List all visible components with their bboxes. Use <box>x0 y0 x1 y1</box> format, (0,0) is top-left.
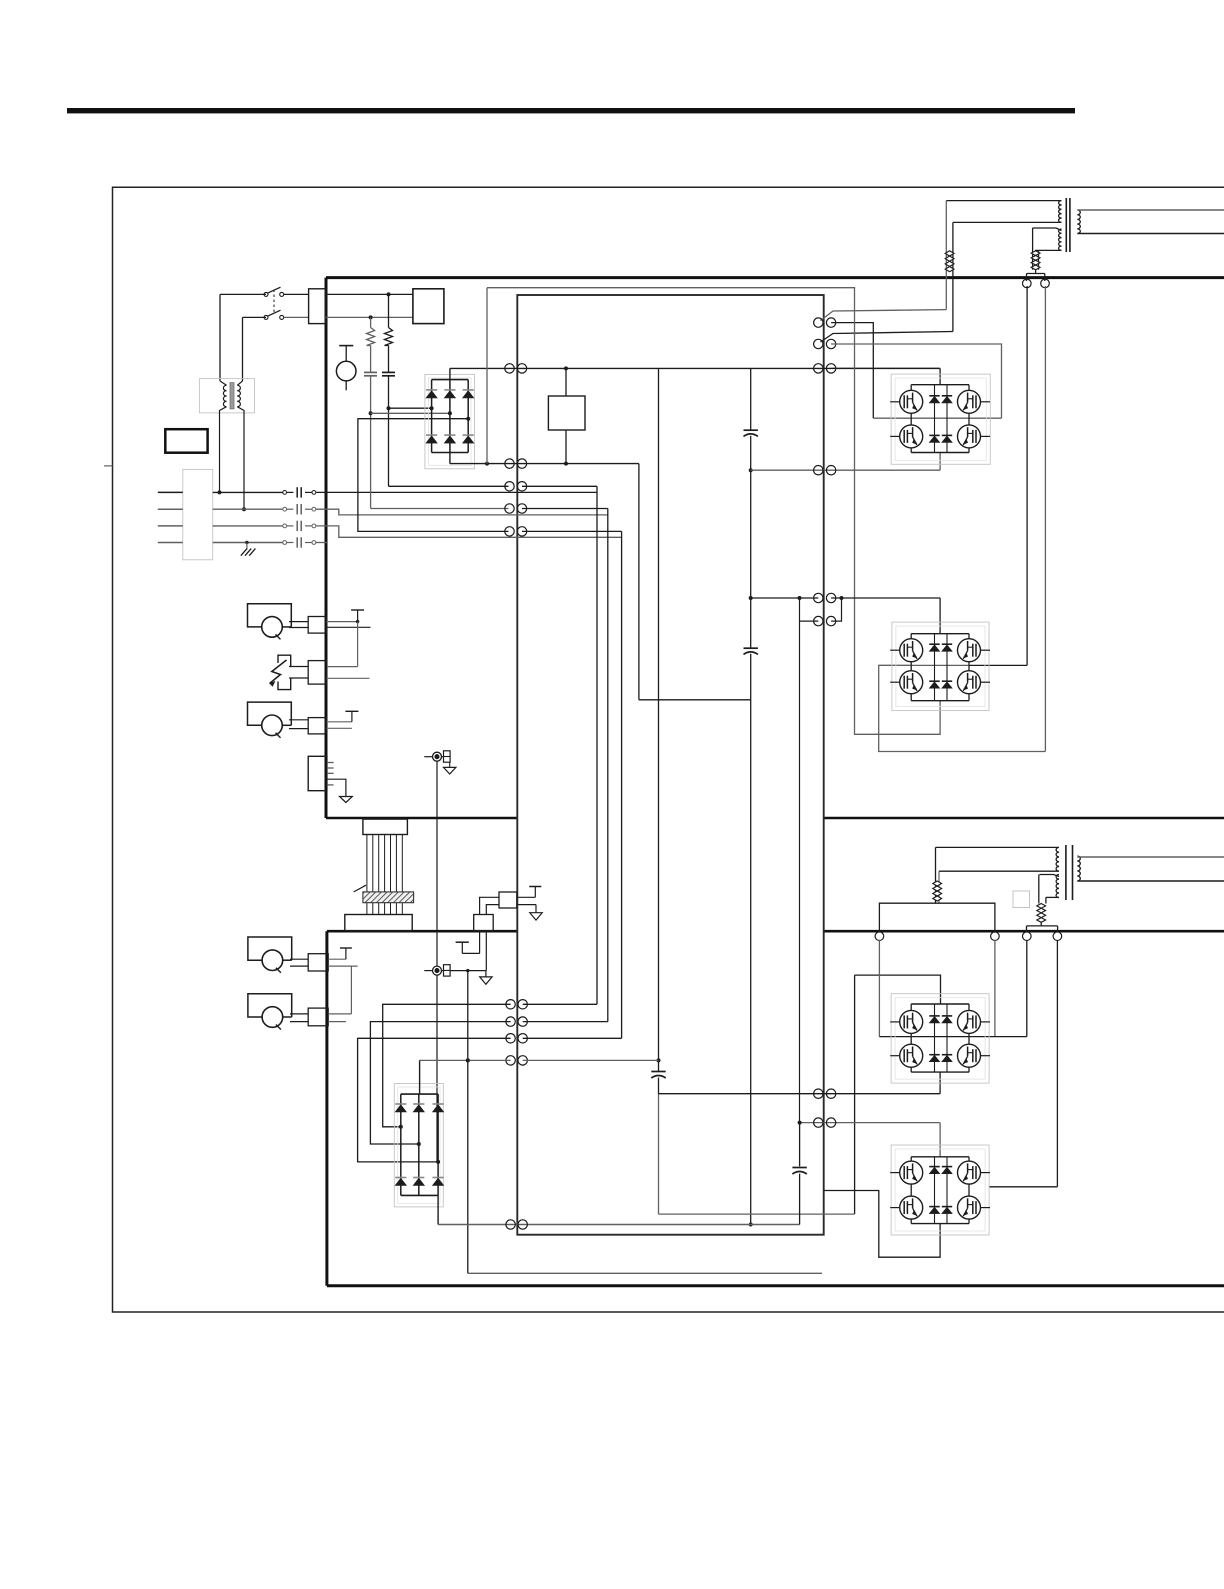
wire B1 bottom row 470 <box>751 469 940 471</box>
wire D1 minus drop <box>449 453 451 464</box>
transistor Q-U1-TR <box>958 390 981 413</box>
wire T1 secondary out bottom <box>1077 233 1224 235</box>
pin pair P6 right edge 470 <box>814 466 823 475</box>
current sensor HS1 <box>424 756 432 758</box>
wire pins598 to B2 top center <box>842 597 941 599</box>
pin pair P4 left edge 508 <box>505 504 514 513</box>
connector J8 <box>308 954 328 971</box>
vertical x750 with capacitors C4 C6 <box>750 368 752 430</box>
U1 right leg wire <box>968 385 970 391</box>
wire B2 rows inside board <box>751 597 819 599</box>
wire bus463 drop x639 <box>638 464 640 700</box>
terminal T-bar board2 <box>456 941 469 943</box>
wire D1 plus riser <box>449 368 451 379</box>
ribbon cable wires <box>366 835 368 892</box>
wire 1224 bottom bus <box>438 1224 799 1226</box>
transformer T2 winding P1 <box>936 846 1060 848</box>
wire left drain vertical <box>854 975 856 1214</box>
U3 right leg wire <box>968 1004 970 1010</box>
wire T2 P2 lead B down <box>1045 897 1047 903</box>
transistor Q-U3-BL <box>900 1044 923 1067</box>
rectifier D2 top bus <box>401 1093 438 1095</box>
transistor Q-U4-BL <box>900 1196 923 1219</box>
wire rectifier AC3 feed <box>358 419 509 532</box>
IGBT module U3 outline box <box>891 994 989 1083</box>
U4 left leg wire <box>910 1157 912 1161</box>
wire B4 top center <box>939 1123 941 1157</box>
capacitor C8 <box>799 1123 801 1167</box>
pin pair P10 left edge 1060 <box>506 1056 515 1065</box>
wire DC link upper loop <box>487 288 940 735</box>
wire FB1 to pins 322 <box>821 310 947 321</box>
connector J2 <box>308 617 326 634</box>
transformer T1 core <box>1065 198 1067 252</box>
connector J3 <box>308 661 326 685</box>
wire T1 P2 lead A down <box>1032 228 1034 270</box>
relay K1 box <box>548 396 585 430</box>
transistor Q-U3-BR <box>958 1044 981 1067</box>
wire pin row feed 508 <box>371 508 509 510</box>
pin pair right edge 1122 <box>814 1118 823 1127</box>
wire boxA to boxB lead2 <box>486 905 499 915</box>
wire B3 top center route <box>855 975 941 1004</box>
signal ground arrow G1 <box>327 779 346 796</box>
pin T1-a <box>1023 279 1032 288</box>
wire contactor pole1 to connector <box>284 293 309 295</box>
pin pair P1R right edge 368 <box>814 364 823 373</box>
wire B1 top center <box>831 367 940 369</box>
IGBT module U4 outline box <box>891 1145 989 1235</box>
rectifier D1 top bus <box>432 379 469 381</box>
wire T2 pins down to B3 midpoints <box>878 940 880 1037</box>
resistor R2 <box>370 317 372 327</box>
wire x639 link to x750 rail <box>639 699 751 701</box>
ferrite bead FB3 over lead pair <box>933 881 942 886</box>
transformer T1 winding P1 <box>946 200 1061 202</box>
potentiometer RP3 <box>248 937 292 960</box>
wire T2 secondary out bottom <box>1077 880 1224 882</box>
U3 clamp diode column 1 <box>934 1004 936 1072</box>
pin T2-a <box>875 932 884 941</box>
rectifier D2 column 3 <box>437 1094 439 1195</box>
current sensor HS2 <box>424 970 432 972</box>
pin pair right edge 598 <box>814 593 823 602</box>
transistor Q-U1-TL <box>900 390 923 413</box>
connector J7 board2 top <box>345 915 412 931</box>
wire pins322 to B1 left midpoint <box>831 323 873 419</box>
wire pins344 to B1 right midpoint <box>831 344 1001 418</box>
U2 clamp diode column 2 <box>946 634 948 701</box>
wire B3 midpoint link <box>879 1036 1026 1038</box>
wire pin row feed 486 <box>389 485 509 487</box>
wire bottom link 1214 <box>659 1213 855 1215</box>
IGBT module U1 outline box <box>891 374 990 464</box>
wire T3 left to phase1 <box>220 407 227 493</box>
switch SW1 <box>278 655 291 666</box>
T2 P1 split to pins <box>879 903 995 932</box>
rectifier D1 column 3 <box>467 380 469 453</box>
wire J2 stubs <box>326 621 357 623</box>
pin pair P2 left edge 463 <box>505 459 514 468</box>
pin pair P11 left edge 1224 <box>506 1220 515 1229</box>
U4 clamp diode column 1 <box>934 1157 936 1224</box>
fan motor M box <box>413 289 444 324</box>
phase 4 ground line with feedthrough cap C-F4 <box>158 542 183 544</box>
wire T1 P1 lead A down <box>945 201 947 310</box>
wire boxB right leg down to sensor row <box>485 931 487 971</box>
transformer T1 winding P2 <box>1033 228 1062 231</box>
small part box T2 area <box>1013 891 1030 908</box>
U3 top rail <box>911 1003 969 1005</box>
phase 2 input line with feedthrough cap C-F2 <box>158 508 183 510</box>
wire B1 bottom center <box>939 453 941 471</box>
connector J4 <box>308 718 326 734</box>
transistor Q-U4-BR <box>958 1196 981 1219</box>
wire contactor pole2 to connector <box>284 316 309 318</box>
U4 right leg wire <box>968 1157 970 1161</box>
control board outline <box>517 295 823 1235</box>
ferrite bead FB4 over lead pair <box>1037 904 1046 909</box>
wire 1060 row <box>523 1059 659 1061</box>
pin pair P3 left edge 486 <box>505 482 514 491</box>
DC plus bus node B+ <box>450 367 940 369</box>
rectifier D1 column 1 <box>431 380 433 453</box>
wire to fan motor lower <box>326 316 413 318</box>
resistor R1 <box>388 294 390 327</box>
wire B4 bottom center route <box>824 1191 940 1258</box>
wire T2 P1 lead A down <box>935 847 937 903</box>
wire B1 midpoint link <box>873 417 1001 419</box>
transformer T3 core <box>230 383 234 409</box>
U3 clamp diode column 2 <box>946 1004 948 1072</box>
pin T1-b <box>1041 279 1050 288</box>
wire T1 P2 lead B down <box>1038 250 1040 270</box>
U3 left leg wire <box>910 1004 912 1010</box>
left margin tick <box>104 465 114 467</box>
wire T1 P1 lead B down to pins 344 <box>952 222 954 331</box>
transistor Q-U2-BL <box>900 671 923 694</box>
wire x468 vertical <box>467 971 469 1274</box>
wire 531 to down x622 <box>522 530 622 532</box>
thermostat TP1 <box>336 361 356 381</box>
pin pair P1 left edge 368 <box>505 364 514 373</box>
wire rectifier AC2 feed <box>371 412 450 414</box>
wire T1 secondary out top <box>1077 209 1224 211</box>
ferrite bead FB2 over lead pair <box>1031 251 1040 256</box>
wire T3 right to phase2 <box>237 407 244 510</box>
U2 left leg wire <box>910 634 912 639</box>
ferrite bead FB1 over lead pair <box>945 251 954 256</box>
U2 right leg wire <box>968 634 970 639</box>
rectifier D1 column 2 <box>449 380 451 453</box>
center vertical with capacitor C5 <box>658 368 660 1071</box>
U1 clamp diode column 1 <box>934 385 936 453</box>
interlink connector box B <box>474 915 494 931</box>
transistor Q-U1-BR <box>958 425 981 448</box>
rectifier D1 bottom bus <box>432 452 469 454</box>
signal ground arrow G2 <box>449 762 451 767</box>
wire contactor pole2 left <box>243 316 267 318</box>
wire 1273 row <box>468 1272 822 1274</box>
wire 1038 row to AC3 <box>523 1037 622 1039</box>
U4 clamp diode column 2 <box>946 1157 948 1224</box>
wire 1021 row to AC2 <box>523 1021 608 1023</box>
transformer T2 secondary <box>1077 856 1080 861</box>
bridge rectifier D2 box <box>394 1084 443 1207</box>
transistor Q-U3-TL <box>900 1010 923 1033</box>
U2 bottom rail <box>911 700 969 702</box>
title rule bar <box>67 108 1075 113</box>
U3 bottom rail <box>911 1071 969 1073</box>
T-bar terminal right of boxA <box>517 896 536 898</box>
wire T2 secondary out top <box>1077 856 1224 858</box>
U2 clamp diode column 1 <box>934 634 936 701</box>
pin pair right edge 322 <box>814 318 823 327</box>
connector J9 <box>308 1008 328 1026</box>
transistor Q-U3-TR <box>958 1010 981 1033</box>
wire 508 to down x608 <box>522 508 608 510</box>
wire sensor2 down <box>436 975 438 1162</box>
power board 2 outline <box>327 930 517 933</box>
chassis ground symbol <box>246 543 248 550</box>
wire boxA to boxB lead1 <box>480 897 499 914</box>
wire T1b down to B2 left midpoint <box>1044 286 1046 752</box>
wire T1a down to B2 right midpoint <box>1026 286 1028 665</box>
phase 3 input line with feedthrough cap C-F3 <box>158 525 183 527</box>
fan FM box <box>165 429 207 453</box>
pin T2-b <box>991 932 1000 941</box>
rectifier D2 column 2 <box>418 1094 420 1195</box>
interlink connector box A <box>499 892 517 908</box>
potentiometer RP4 <box>248 994 292 1017</box>
input terminal block TB <box>183 469 213 559</box>
phase 1 input line with feedthrough cap C-F1 <box>158 491 183 493</box>
contactor W poles <box>264 292 268 296</box>
wire T2 P1 lead B down <box>938 871 940 903</box>
connector J1 on board edge <box>309 289 326 324</box>
transistor Q-U2-TL <box>900 639 923 662</box>
wire contactor pole1 left <box>220 293 266 295</box>
pin T2-c <box>1023 932 1032 941</box>
capacitor C1 <box>388 346 390 373</box>
wire 1093 row <box>659 1093 941 1095</box>
U1 bottom rail <box>911 452 969 454</box>
transformer T1 secondary <box>1077 210 1080 215</box>
pin pair right edge 344 <box>814 339 823 348</box>
U1 left leg wire <box>910 385 912 391</box>
rectifier D2 bottom bus <box>401 1194 438 1196</box>
T2 P2 split to pins <box>1040 922 1042 926</box>
U2 top rail <box>911 633 969 635</box>
transformer T3 winding left <box>220 381 227 385</box>
capacitor C2 <box>370 346 372 373</box>
control transformer T3 box <box>199 379 254 413</box>
transformer T3 winding right <box>237 381 242 385</box>
connector J6 board1 bottom <box>363 819 408 834</box>
transformer T2 winding P2 <box>1040 875 1060 877</box>
transistor Q-U2-TR <box>958 639 981 662</box>
rectifier D2 column 1 <box>400 1094 402 1195</box>
potentiometer RP2 <box>248 702 292 725</box>
pin bracket 598-621 <box>831 598 841 621</box>
signal ground arrow right of boxA <box>517 904 536 906</box>
U4 top rail <box>911 1156 969 1158</box>
pin pair right edge 621 <box>814 616 823 625</box>
pin pair right edge 1093 <box>814 1089 823 1098</box>
connector J5 <box>308 756 327 790</box>
pin T2-d <box>1053 932 1062 941</box>
wire rectifier AC1 feed <box>389 407 432 409</box>
transformer T2 core <box>1065 845 1067 900</box>
T1 P2 split to pins <box>1035 270 1037 274</box>
transistor Q-U1-BL <box>900 425 923 448</box>
transistor Q-U4-TR <box>958 1161 981 1184</box>
IGBT module U2 outline box <box>892 622 989 711</box>
wire boxB left leg to T terminal <box>479 931 481 954</box>
U1 top rail <box>911 384 969 386</box>
wire to fan motor upper <box>326 293 413 295</box>
wire D2 plus riser <box>419 1060 421 1094</box>
bridge rectifier D1 box <box>425 375 475 469</box>
wire 486 to down x597 <box>522 485 597 487</box>
U1 clamp diode column 2 <box>946 385 948 453</box>
wire sensor to ground arrow G3 <box>450 970 486 972</box>
U4 bottom rail <box>911 1223 969 1225</box>
wire D2 minus drop <box>437 1195 439 1224</box>
outer enclosure border <box>113 187 1224 1312</box>
wire T2 pin d to B4 right midpoint <box>1056 941 1058 1187</box>
pin pair P9 left edge 1038 <box>506 1034 515 1043</box>
power board 1 outline <box>326 276 1224 279</box>
pin pair P8 left edge 1021 <box>506 1017 515 1026</box>
transistor Q-U4-TL <box>900 1161 923 1184</box>
wire B3 bottom center <box>939 1072 941 1094</box>
pin pair P5 left edge 531 <box>505 527 514 536</box>
wire 1004 row to AC1 <box>523 1003 597 1005</box>
wire sensor link <box>436 761 438 966</box>
potentiometer RP1 <box>248 604 292 627</box>
DC minus sense bus <box>450 463 639 465</box>
wire 1122 row <box>800 1122 941 1124</box>
sleeve pointer tick <box>354 885 366 892</box>
transistor Q-U2-BR <box>958 671 981 694</box>
pin pair P7 left edge 1004 <box>506 1000 515 1009</box>
